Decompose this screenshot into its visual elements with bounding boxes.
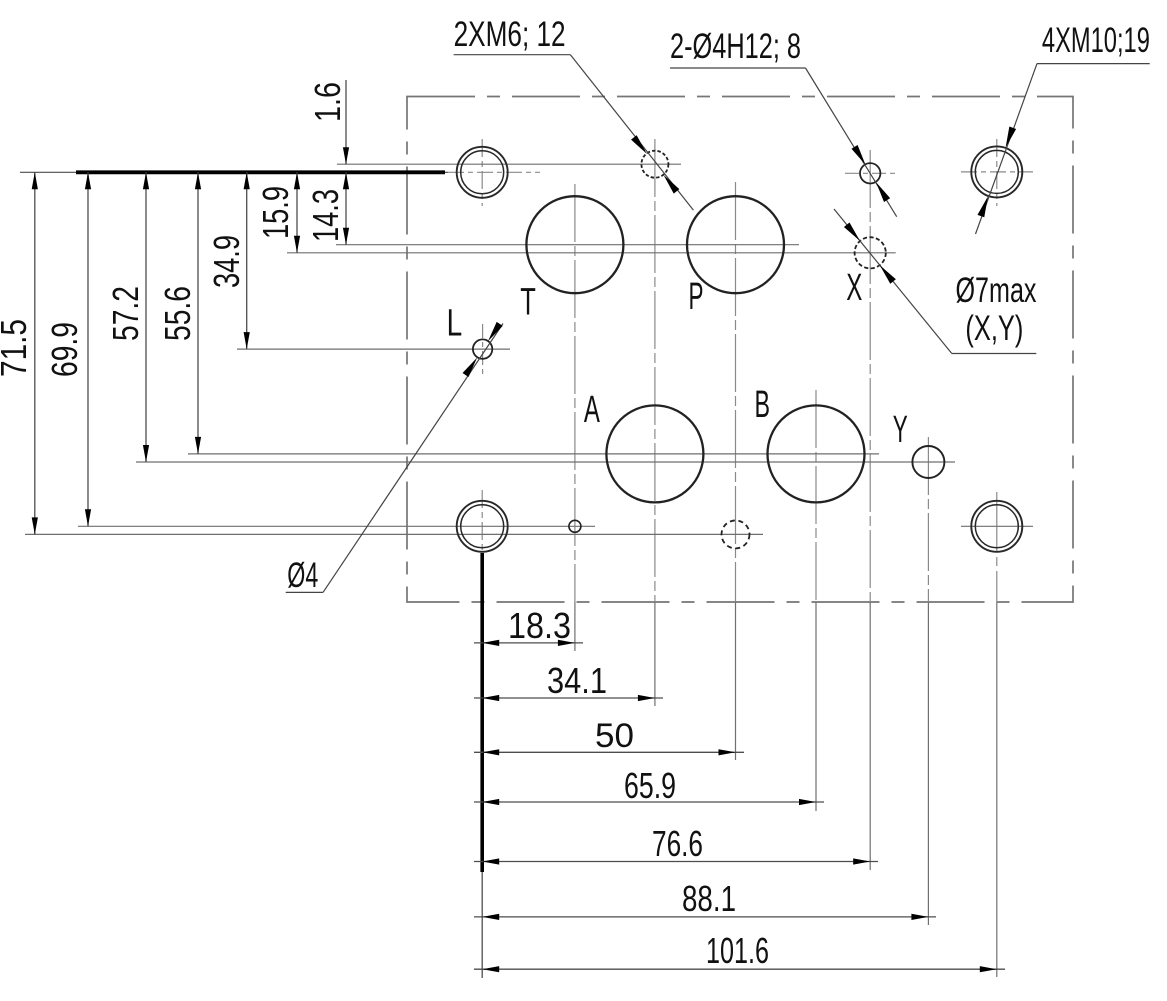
hole Y (912, 446, 944, 478)
svg-text:T: T (520, 282, 536, 324)
svg-text:50: 50 (595, 717, 634, 755)
port P (687, 196, 784, 293)
wire: row line y=462 (Y centerline / 57.2 extension) (136, 461, 955, 463)
hole L (473, 339, 492, 358)
wire: row line y=526.3 (bottom bolts centerline / 69.9 extension) (78, 525, 595, 527)
dimension 34.1 (horizontal) (474, 660, 663, 701)
dimension 34.9 (vertical) (206, 172, 250, 349)
leader Ø4 callout (to L hole) (286, 322, 503, 593)
svg-text:Ø7max: Ø7max (956, 271, 1037, 310)
bolt hole M10 top-right (971, 146, 1022, 197)
wire: column centerline x=870.2 (Ø4 / X hole) (869, 150, 871, 602)
wire: thin dimension line at datum y=172.3 (20, 171, 448, 173)
svg-text:2-Ø4H12; 8: 2-Ø4H12; 8 (670, 27, 801, 66)
dimension 55.6 (vertical) (157, 172, 201, 454)
port T (526, 196, 623, 293)
svg-text:101.6: 101.6 (706, 930, 769, 971)
dimension 69.9 (vertical) (44, 172, 91, 526)
dimension 57.2 (vertical) (105, 172, 149, 462)
svg-text:69.9: 69.9 (44, 322, 85, 377)
wire: row line y=244.7 (T,P centerline / 14.3 extension) (336, 244, 799, 246)
svg-text:Ø4: Ø4 (287, 556, 318, 595)
hole X (855, 237, 886, 268)
dimension 76.6 (horizontal) (474, 823, 878, 865)
svg-text:88.1: 88.1 (682, 878, 736, 919)
svg-text:L: L (447, 303, 463, 345)
svg-text:B: B (755, 384, 771, 426)
svg-text:1.6: 1.6 (307, 82, 348, 122)
dimension 14.3 (vertical) (305, 172, 349, 244)
wire: row extension line y=164.2 (M6 centerline, 1.6 offset) (337, 163, 681, 165)
leader 4XM10 callout (976, 64, 1150, 234)
svg-text:18.3: 18.3 (508, 605, 571, 646)
svg-text:P: P (689, 276, 704, 318)
leader 2XM6 callout (454, 55, 694, 210)
svg-text:14.3: 14.3 (305, 189, 346, 242)
svg-text:X: X (846, 267, 862, 309)
hole Ø4H12 top (860, 163, 880, 183)
wire: top-left bolt horizontal crosshair (448, 171, 540, 173)
dimension 65.9 (horizontal) (474, 765, 824, 806)
wire: thick datum vertical line below bottom-left bolt (480, 553, 484, 872)
bolt hole M10 top-left (457, 147, 508, 198)
wire: column centerline x=996.8 bottom-right bolt, down to 101.6 dimension (996, 492, 998, 602)
wire: column centerline x=928.4 (Y hole) (927, 437, 929, 602)
wire: row line y=534.4 (bottom M6 centerline / 71.5 extension) (25, 533, 763, 535)
port A (606, 405, 703, 502)
svg-text:4XM10;19: 4XM10;19 (1042, 21, 1150, 60)
wire: row line y=252.8 (X centerline / 15.9 extension) (287, 252, 896, 254)
wire: column centerline x=482.2 bottom bolt crosshair (481, 490, 483, 556)
dimension 71.5 (vertical) (0, 172, 38, 534)
svg-text:57.2: 57.2 (105, 286, 146, 341)
svg-text:2XM6; 12: 2XM6; 12 (454, 15, 566, 54)
wire: thick datum horizontal line (76, 170, 445, 174)
dimension 50 (horizontal) (474, 717, 744, 755)
svg-text:Y: Y (893, 409, 908, 451)
wire: column centerline x=816 (B port) (815, 390, 817, 602)
port B (768, 405, 865, 502)
svg-text:71.5: 71.5 (0, 319, 34, 377)
svg-text:(X,Y): (X,Y) (965, 309, 1023, 348)
wire: Ø4 top hole horizontal crosshair (845, 172, 895, 174)
wire: top-right bolt horizontal crosshair (961, 171, 1033, 173)
leader 2-Ø4H12 callout (670, 68, 897, 217)
wire: row line y=349.1 (L centerline / 34.9 extension) (237, 348, 510, 350)
hole M6 bottom (hidden, dashed) (722, 520, 750, 548)
plate outline (phantom dash-dot rectangle of mounting surface) (407, 97, 1073, 603)
svg-text:A: A (584, 389, 600, 431)
bolt hole M10 bottom-right (971, 501, 1022, 552)
wire: column centerline x=996.8 top-right bolt crosshair (996, 139, 998, 206)
svg-text:76.6: 76.6 (652, 823, 703, 864)
pin hole at 18.3/69.9 (569, 520, 581, 532)
dimension 18.3 (horizontal) (474, 605, 583, 646)
wire: bottom-right bolt horizontal crosshair (961, 525, 1033, 527)
wire: thin datum vertical extension to 101.6 dimension (481, 872, 483, 978)
wire: column centerline x=482.2 top (bolt crosshair) (481, 139, 483, 206)
svg-text:55.6: 55.6 (157, 286, 198, 341)
wire: column centerline x=574.9 (T port / pin hole) (574, 184, 576, 602)
leader Ø7max (X,Y) callout (834, 209, 1036, 354)
dimension 15.9 (vertical) (255, 172, 300, 253)
wire: row line y=453.9 (A,B centerline / 55.6 extension) (188, 453, 879, 455)
bolt hole M10 bottom-left (457, 501, 508, 552)
dimension 101.6 (horizontal) (474, 930, 1005, 972)
svg-text:15.9: 15.9 (255, 186, 296, 239)
wire: column centerline x=735.5 (P port / bottom M6) (735, 182, 737, 602)
hole M6 top (2XM6) (641, 151, 668, 178)
svg-text:65.9: 65.9 (624, 765, 676, 806)
svg-text:34.9: 34.9 (206, 235, 247, 288)
wire: column centerline x=654.9 (M6 / A port) (654, 139, 656, 602)
dimension 88.1 (horizontal) (474, 878, 936, 920)
dimension 1.6 (vertical, arrow from above) (307, 80, 349, 164)
wire: L hole vertical crosshair (482, 324, 484, 377)
svg-text:34.1: 34.1 (547, 660, 607, 701)
